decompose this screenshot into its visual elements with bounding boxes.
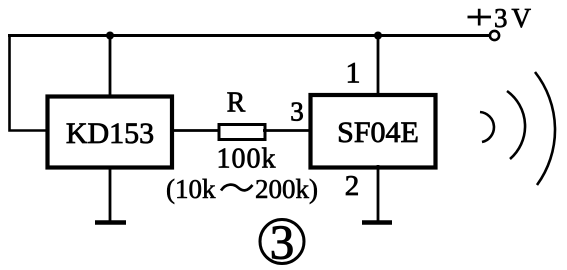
wire: SF04E pin 2 down to ground — [377, 165, 380, 222]
svg-text:3: 3 — [290, 97, 304, 127]
tilde of (10k~200k) — [221, 185, 253, 191]
svg-text:1: 1 — [346, 57, 361, 90]
wire: junction down to KD153 top — [109, 36, 112, 98]
node junction above SF04E — [374, 32, 382, 40]
sound wave arc middle — [507, 91, 525, 159]
wire: resistor to SF04E pin 3 — [263, 129, 312, 132]
svg-text:3: 3 — [270, 215, 295, 270]
svg-text:3V: 3V — [494, 3, 535, 33]
terminal +3V (open circle) — [490, 31, 499, 40]
svg-text:R: R — [227, 88, 246, 119]
svg-text:100k: 100k — [217, 144, 276, 175]
IC SF04E box — [311, 95, 436, 168]
wire: top supply rail — [8, 34, 490, 37]
node junction above KD153 — [106, 32, 114, 40]
svg-text:200k): 200k) — [255, 174, 318, 204]
wire: KD153 bottom to ground — [109, 166, 112, 222]
sound wave arc large — [535, 72, 555, 185]
resistor R — [219, 125, 265, 140]
svg-text:(10k: (10k — [166, 174, 216, 204]
wire: KD153 right to resistor — [171, 129, 219, 132]
label +3V : plus sign — [468, 9, 492, 26]
wire: junction down to SF04E pin 1 — [377, 36, 380, 97]
svg-text:2: 2 — [345, 170, 360, 202]
svg-text:KD153: KD153 — [66, 117, 154, 150]
svg-text:SF04E: SF04E — [337, 116, 419, 149]
wire: left feedback (down then right into KD153) — [10, 36, 48, 131]
figure number circle — [260, 220, 304, 264]
ground (under KD153) — [95, 220, 126, 224]
IC KD153 box — [48, 97, 173, 168]
ground (under SF04E) — [362, 220, 392, 224]
sound wave arc small — [480, 112, 494, 142]
